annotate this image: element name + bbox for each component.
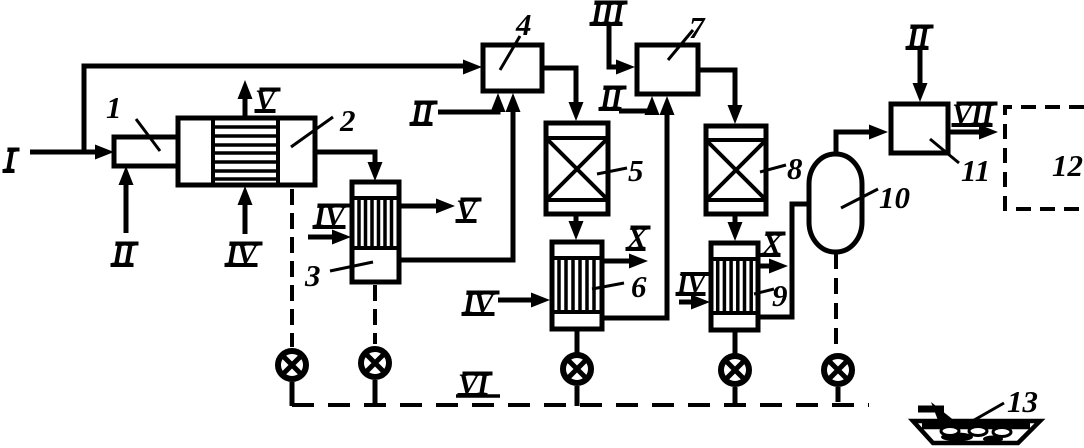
svg-text:8: 8 <box>787 151 803 186</box>
svg-text:3: 3 <box>304 258 321 293</box>
svg-text:6: 6 <box>631 269 647 304</box>
svg-text:11: 11 <box>961 153 990 188</box>
svg-text:7: 7 <box>689 10 706 45</box>
svg-text:4: 4 <box>515 7 532 42</box>
svg-text:2: 2 <box>339 103 356 138</box>
svg-text:12: 12 <box>1052 148 1083 183</box>
svg-text:1: 1 <box>106 90 122 125</box>
svg-text:10: 10 <box>879 180 910 215</box>
svg-text:9: 9 <box>772 278 788 313</box>
svg-text:5: 5 <box>628 153 644 188</box>
svg-text:13: 13 <box>1007 384 1038 419</box>
